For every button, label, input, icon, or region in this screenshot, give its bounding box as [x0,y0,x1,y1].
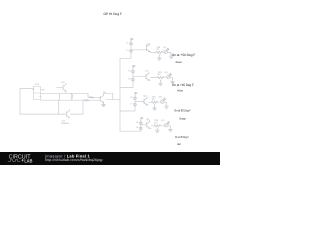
wire stage4 base [141,124,147,126]
wire stage4 row [151,125,154,127]
wire R1 to D1 [162,51,165,53]
source V8 [139,122,142,125]
ground stage3 right [165,106,169,108]
ground under R4 [155,128,159,132]
wire D4 right [168,126,170,130]
wire D3 right [164,102,166,106]
wire stage1 base [131,49,147,51]
resistor R10 [84,99,89,101]
source V2 [130,42,133,45]
wire stage1 bottom [120,40,131,59]
wire D2 right [170,78,173,82]
ground under Q6 [101,102,105,106]
wire stage3 row [149,101,152,103]
LED D3 orange [161,98,166,103]
svg-text:On at 95 Deg F: On at 95 Deg F [175,135,189,139]
LED D1 green [164,48,169,53]
svg-text:On at +65 Deg F: On at +65 Deg F [172,83,194,87]
resistor R1 [156,51,163,53]
svg-text:Orange: Orange [179,116,186,120]
wire row B [41,99,99,101]
svg-text:OP HI Deg F: OP HI Deg F [104,12,123,16]
wire bottom long right [71,100,84,114]
wire R2 to D2 [164,77,165,79]
wire stage4 bottom [120,121,141,132]
wire stage2 base [133,76,146,78]
bus vertical [119,58,121,131]
transistor Q4 [147,120,151,128]
node flag F1 [131,38,133,41]
wire row A [41,93,99,97]
transistor Q5 [57,83,67,93]
logo waveform [8,160,20,162]
transistor Q3 [144,97,148,105]
source V6 [134,97,137,100]
svg-text:http://circuitlab.com/c/hw9cbq: http://circuitlab.com/c/hw9cbq26pqy [45,158,103,162]
wire stage3 bottom [120,96,135,112]
transistor Q1 [147,44,152,53]
wire R3 to D3 [158,101,159,103]
svg-text:On at +50 Deg F: On at +50 Deg F [172,53,196,57]
transistor Q2 [146,72,150,80]
svg-text:2N3904: 2N3904 [61,122,69,125]
wire stage1 row [151,51,156,53]
source V3 [130,50,133,53]
resistor R9 [89,96,94,98]
source V9 [139,127,142,130]
resistor R2 [157,76,164,78]
node flag F2 [133,65,135,68]
source V4 [132,70,135,73]
svg-text:On at 80 Deg F: On at 80 Deg F [174,108,191,112]
left sensor ladder RT1 [33,87,42,100]
wire R4 to D4 [161,125,165,127]
wire left rail [20,89,34,115]
resistor R3 [151,101,158,103]
wire stage2 bottom [120,67,133,88]
ground stage4 right [168,130,172,132]
wire stage3 base [135,100,144,102]
source V5 [132,78,135,81]
resistor R11 vertical [71,93,73,100]
source V7 [134,103,137,106]
resistor R4 [154,125,161,127]
node flag F4 [141,117,143,120]
svg-text:Red: Red [177,142,181,146]
ground under R3 [153,105,157,111]
wire bottom long left [20,113,64,115]
svg-text:LAB: LAB [24,159,33,165]
footer bar [0,152,220,165]
svg-text:Green: Green [176,60,183,64]
wire D1 right [168,52,171,56]
logo bolt [22,159,24,162]
ground stage1 right [169,56,173,58]
node flag F3 [135,92,137,95]
wire stage2 row [151,77,158,79]
LED D2 yellow [167,73,172,78]
transistor Q6 [99,96,104,103]
wire rows link [58,93,60,100]
transistor Q7 [59,100,70,118]
svg-text:Yellow: Yellow [177,89,184,93]
LED D4 red [165,122,170,127]
ground under R2 [159,80,163,86]
wire Q6 emitter stub [106,98,113,100]
ground stage2 right [171,81,175,83]
ground under R1 [157,55,161,61]
wire Q6 collector loop to bus [104,93,121,99]
